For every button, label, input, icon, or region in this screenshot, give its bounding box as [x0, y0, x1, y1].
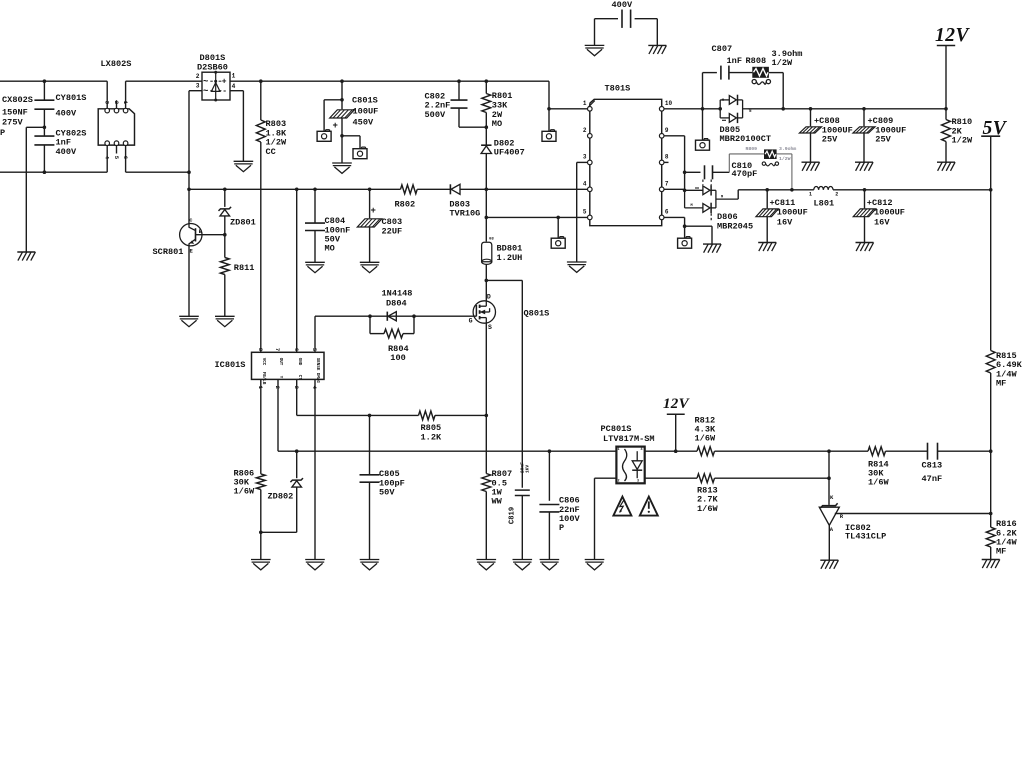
label L801 — [814, 198, 835, 208]
zener ZD801 — [219, 188, 232, 237]
svg-text:R809: R809 — [746, 146, 758, 152]
svg-text:MF: MF — [996, 547, 1006, 557]
resistor R814 — [868, 447, 886, 456]
wire R814 row — [829, 450, 868, 452]
transistor Q801S MOSFET — [469, 293, 496, 331]
svg-text:1/6W: 1/6W — [697, 504, 718, 514]
transistor SCR801 — [180, 189, 225, 254]
wire icon stub pin1 — [548, 109, 550, 131]
wire D803 to node — [460, 188, 590, 192]
svg-text:1/6W: 1/6W — [234, 487, 255, 497]
wire IC pin2 feedback — [278, 379, 616, 453]
capacitor 400V node — [595, 10, 658, 28]
label R810 — [952, 117, 973, 145]
svg-text:FB/LB: FB/LB — [261, 372, 266, 385]
wire primary clamp row — [187, 172, 400, 191]
resistor R801 — [482, 79, 491, 144]
svg-text:7: 7 — [274, 348, 281, 351]
svg-text:1000UF: 1000UF — [874, 208, 905, 218]
svg-text:MBR20100CT: MBR20100CT — [720, 134, 772, 144]
svg-text:P: P — [559, 523, 564, 533]
svg-text:25V: 25V — [875, 135, 891, 145]
icon tab C801S left — [317, 130, 331, 142]
svg-text:R811: R811 — [234, 263, 255, 273]
inductor L801 — [809, 187, 838, 198]
wire C801S tab2 — [342, 136, 360, 149]
svg-text:7: 7 — [665, 180, 669, 187]
wire R813 out — [715, 476, 831, 480]
wire IC pin3 row — [297, 379, 419, 417]
capacitor CY802S — [34, 126, 54, 175]
ground chassis C804 — [305, 262, 325, 272]
zener ZD802 — [261, 451, 303, 532]
wire drain to C819 branch — [486, 280, 522, 487]
label R806 — [234, 468, 255, 496]
svg-text:1N4148: 1N4148 — [382, 289, 413, 299]
wire R812 out — [715, 449, 831, 453]
T801S pins right — [659, 107, 664, 220]
svg-text:SCR801: SCR801 — [153, 247, 184, 257]
resistor R803 — [256, 79, 265, 352]
svg-text:D2SB60: D2SB60 — [197, 63, 228, 73]
svg-text:M: M — [721, 195, 723, 199]
svg-text:MO: MO — [325, 244, 335, 254]
wire R809 to 5V rail — [777, 154, 794, 192]
svg-text:c: c — [189, 216, 192, 223]
ground chassis C819 — [513, 560, 533, 570]
capacitor C803 — [357, 188, 382, 263]
wire 5V sense drop — [990, 190, 992, 351]
wire PC801 emitter to ground — [595, 478, 617, 559]
wire pin9 branch — [664, 136, 686, 192]
pin LX bot4 — [105, 141, 110, 172]
wire TL431 ref — [835, 512, 993, 516]
label R814 — [868, 459, 889, 487]
svg-text:100UF: 100UF — [353, 107, 379, 117]
label C809 — [868, 116, 907, 144]
svg-text:16V: 16V — [777, 217, 793, 227]
wire PC to R812 — [645, 450, 697, 452]
svg-text:08: 08 — [489, 237, 494, 241]
resistor R807 — [482, 415, 491, 559]
ground chassis pin3 — [567, 262, 587, 272]
svg-text:150NF: 150NF — [2, 107, 28, 117]
svg-text:+: + — [371, 206, 376, 216]
ground chassis R806 — [251, 560, 271, 570]
svg-text:1/6W: 1/6W — [695, 434, 716, 444]
wire 400V right leg — [656, 19, 658, 46]
svg-text:4: 4 — [232, 83, 236, 90]
ground chassis bridge — [234, 161, 254, 171]
svg-text:ZD801: ZD801 — [230, 217, 256, 227]
label CX802S value — [0, 95, 33, 138]
svg-text:LTV817M-SM: LTV817M-SM — [603, 434, 655, 444]
svg-text:CX802S: CX802S — [2, 95, 33, 105]
label C802 — [425, 91, 451, 119]
icon tab pin5 — [551, 237, 565, 249]
capacitor C809 — [853, 109, 875, 162]
ground earth R816 — [982, 560, 1000, 569]
svg-text:OUT: OUT — [278, 358, 282, 366]
svg-text:~: ~ — [203, 77, 208, 87]
pin LX bot5 stub — [114, 141, 119, 154]
icon tab pin1 — [542, 130, 556, 142]
wire 5V rail — [765, 188, 992, 192]
wire IC pin6 up — [295, 188, 299, 353]
resistor R804 loop — [370, 316, 414, 338]
wire CY midpoint branch — [26, 127, 44, 252]
svg-text:3.9ohm: 3.9ohm — [779, 146, 796, 152]
svg-text:+C812: +C812 — [867, 198, 893, 208]
capacitor C807 — [703, 66, 753, 109]
svg-text:M: M — [722, 99, 724, 103]
label R804 — [388, 344, 409, 363]
svg-text:-: - — [222, 87, 227, 96]
ground earth D806 branch — [703, 244, 721, 253]
label R813 — [697, 486, 718, 514]
wire pin6 branch — [664, 217, 686, 238]
supply 12V flag — [935, 25, 971, 109]
wire pin3 to ground — [577, 162, 588, 262]
svg-text:10: 10 — [665, 100, 673, 107]
inductor LX802S body — [98, 109, 134, 145]
label D804 — [382, 289, 413, 309]
wire IC pin5 riser — [314, 316, 316, 352]
resistor R813 — [697, 474, 715, 483]
shunt regulator IC802 — [819, 451, 844, 560]
svg-text:4: 4 — [583, 180, 587, 187]
label R807 — [492, 469, 513, 507]
wire bottom AC line from left edge — [0, 171, 107, 173]
capacitor C805 — [360, 415, 380, 559]
bridge rectifier D801S body — [202, 72, 230, 100]
capacitor C806 — [539, 451, 559, 559]
ground chassis C806 — [540, 560, 560, 570]
diode D804 — [387, 312, 396, 321]
ground chassis PC801 — [585, 560, 605, 570]
icon tab C801S right — [353, 147, 367, 159]
label CY801S — [56, 93, 87, 118]
IC801S body — [252, 352, 325, 379]
svg-text:T801S: T801S — [605, 84, 631, 94]
svg-text:D801S: D801S — [200, 53, 226, 63]
wire gate row — [315, 314, 476, 318]
svg-text:2: 2 — [583, 127, 587, 134]
ground chassis SCR801 — [179, 316, 199, 326]
svg-text:1.2UH: 1.2UH — [497, 253, 523, 263]
wire SCR emitter to ground — [188, 246, 190, 316]
svg-text:+: + — [333, 121, 338, 131]
pin numbers LX802S — [103, 101, 129, 160]
wire rail step to pin1 — [547, 81, 587, 110]
svg-text:1: 1 — [583, 100, 587, 107]
svg-text:N: N — [749, 110, 751, 114]
svg-text:1000UF: 1000UF — [777, 208, 808, 218]
IC801S pin numbers top — [257, 348, 318, 352]
svg-text:1nF: 1nF — [727, 56, 742, 66]
dual diode D805 — [720, 95, 751, 123]
label C807 — [712, 44, 742, 66]
svg-text:D806: D806 — [717, 212, 738, 222]
wire 12V rail — [748, 107, 948, 111]
wire bead to drain — [485, 264, 489, 301]
warning triangle electric — [613, 497, 631, 516]
label ZD802 — [268, 492, 294, 502]
diode D803 — [450, 184, 460, 194]
svg-text:2: 2 — [113, 101, 120, 104]
wire source down — [485, 323, 487, 415]
wire pin10 to D805 — [664, 107, 722, 111]
wire 400V left leg — [594, 19, 596, 46]
wire top AC line from left edge — [0, 80, 107, 82]
label R809 — [746, 146, 797, 162]
svg-text:TVR10G: TVR10G — [449, 209, 480, 219]
ground chassis C805 — [360, 560, 380, 570]
svg-text:MO: MO — [492, 119, 502, 129]
PC801S internals — [618, 448, 643, 483]
svg-text:1KV: 1KV — [525, 465, 531, 474]
fusible resistor R808 — [752, 67, 770, 85]
wire bridge pin3 riser — [187, 91, 202, 174]
ground earth CX mid — [17, 252, 35, 261]
label SCR801 — [153, 247, 184, 257]
svg-text:2: 2 — [618, 479, 620, 483]
svg-text:470pF: 470pF — [732, 169, 758, 179]
label BD801 — [497, 243, 523, 263]
capacitor C802 — [451, 79, 487, 127]
resistor R810 — [942, 109, 951, 162]
pin numbers D801S — [196, 72, 236, 90]
label D806 — [717, 212, 753, 232]
resistor R806 — [256, 379, 265, 559]
label IC802 — [845, 523, 886, 542]
svg-text:2: 2 — [196, 73, 200, 80]
label Q801S — [524, 309, 550, 319]
label R801 — [492, 91, 513, 129]
svg-text:1/2W: 1/2W — [772, 58, 793, 68]
label R802 — [395, 200, 416, 210]
svg-text:Q801S: Q801S — [524, 309, 550, 319]
label R808 — [746, 49, 803, 68]
wire icon stub C807 — [702, 109, 704, 140]
svg-text:2: 2 — [835, 192, 838, 198]
ground chassis R807 — [477, 560, 497, 570]
label C801S — [352, 96, 378, 128]
svg-text:BD801: BD801 — [497, 243, 523, 253]
icon tab D806 — [678, 237, 692, 249]
svg-text:C813: C813 — [922, 460, 943, 470]
label PC801S — [601, 424, 655, 444]
capacitor C811 — [756, 190, 779, 243]
svg-text:MBR2045: MBR2045 — [717, 222, 753, 232]
pin LX top3 — [123, 81, 128, 113]
ferrite bead BD801 — [482, 237, 495, 264]
resistor R812 — [697, 447, 715, 456]
wire AC top LX to bridge — [126, 80, 202, 82]
svg-text:UF4007: UF4007 — [494, 148, 525, 158]
label T801S — [605, 84, 631, 94]
ground chassis R811 — [215, 316, 235, 326]
label D805 — [720, 125, 772, 144]
svg-text:S: S — [488, 324, 492, 331]
label R815 — [996, 351, 1023, 389]
svg-text:LX802S: LX802S — [101, 59, 132, 69]
label C805 — [379, 469, 405, 497]
svg-text:SENSE DMAG: SENSE DMAG — [315, 358, 319, 384]
svg-text:12V: 12V — [663, 396, 691, 412]
label 400V net — [612, 0, 633, 10]
svg-text:450V: 450V — [353, 118, 374, 128]
svg-text:3: 3 — [196, 83, 200, 90]
bridge D801S internals — [203, 71, 227, 102]
label C813 — [922, 460, 943, 484]
svg-text:MF: MF — [996, 379, 1006, 389]
label C803 — [382, 217, 403, 236]
svg-text:M: M — [691, 204, 693, 208]
svg-text:22UF: 22UF — [382, 226, 403, 236]
svg-text:50V: 50V — [379, 488, 395, 498]
ground earth R810 — [937, 162, 955, 171]
svg-text:275V: 275V — [2, 118, 23, 128]
svg-text:16V: 16V — [874, 217, 890, 227]
label R812 — [695, 415, 716, 443]
wire bridge pin4 to ground — [230, 91, 243, 162]
wire icon stub pin5 — [557, 217, 559, 238]
warning triangle excl — [640, 497, 658, 516]
label C810 — [732, 161, 758, 179]
ground earth C811 — [758, 243, 776, 252]
ground earth C812 — [856, 243, 874, 252]
svg-text:1/2W: 1/2W — [952, 136, 973, 146]
resistor R815 — [986, 351, 995, 454]
diode D802 — [481, 145, 491, 189]
svg-text:D804: D804 — [386, 299, 407, 309]
svg-text:3: 3 — [637, 479, 639, 483]
label R803 — [266, 119, 287, 157]
ground chassis C803 — [360, 262, 380, 272]
capacitor C819 — [515, 490, 530, 559]
svg-text:6: 6 — [122, 156, 129, 159]
wire rectified + rail — [230, 80, 549, 82]
supply 12V flag secondary — [663, 396, 691, 453]
svg-text:1: 1 — [232, 72, 236, 79]
label D803 — [449, 200, 480, 219]
capacitor C804 — [305, 188, 325, 263]
svg-text:400V: 400V — [56, 147, 77, 157]
capacitor C801S — [330, 79, 355, 163]
svg-text:1/2W: 1/2W — [779, 156, 791, 162]
ground chassis IC pin4 — [305, 560, 325, 570]
wire C810 to R809 — [729, 154, 764, 172]
label D802 — [494, 138, 525, 157]
label C812 — [867, 198, 905, 227]
IC801S pin numbers bottom — [257, 386, 318, 390]
pin LX top2 stub — [114, 100, 119, 113]
wire C801S tab1 — [324, 100, 342, 131]
dual diode D806 — [685, 180, 739, 221]
label LX802S — [101, 59, 132, 69]
wire PC pin3 row — [645, 477, 697, 479]
svg-text:PC801S: PC801S — [601, 424, 632, 434]
svg-text:P: P — [0, 128, 5, 138]
svg-text:D: D — [487, 293, 491, 300]
svg-text:+: + — [222, 78, 227, 87]
svg-text:GND: GND — [297, 358, 301, 366]
label C819 — [508, 507, 516, 524]
svg-text:R808: R808 — [746, 56, 767, 66]
wire R805 to source node — [435, 414, 488, 418]
IC801S pin names — [261, 358, 319, 385]
svg-text:400V: 400V — [56, 108, 77, 118]
label CY802S — [56, 129, 87, 157]
capacitor C810 — [685, 165, 730, 179]
wire R808 to rail — [769, 73, 785, 111]
svg-text:5: 5 — [583, 209, 587, 216]
resistor R805 — [419, 411, 436, 420]
resistor R816 — [986, 451, 995, 559]
svg-text:C801S: C801S — [352, 96, 378, 106]
capacitor C808 — [799, 109, 821, 162]
ground earth 400V — [648, 45, 666, 54]
svg-text:3: 3 — [583, 154, 587, 161]
T801S pin8 stub — [664, 161, 669, 163]
resistor R811 — [220, 235, 229, 317]
svg-text:ZD802: ZD802 — [268, 492, 294, 502]
optocoupler PC801S body — [616, 447, 644, 484]
wire pin5 link — [486, 216, 590, 220]
T801S pin numbers right — [665, 100, 673, 216]
pin LX bot6 — [123, 141, 128, 172]
svg-text:L801: L801 — [814, 198, 835, 208]
svg-text:1: 1 — [618, 448, 620, 452]
wire pin7 link — [664, 188, 685, 190]
svg-text:100: 100 — [390, 353, 405, 363]
wire clamp node to pin5 row — [485, 189, 489, 241]
svg-text:VCC: VCC — [261, 358, 265, 366]
svg-text:R802: R802 — [395, 200, 416, 210]
svg-text:C807: C807 — [712, 44, 733, 54]
svg-text:47nF: 47nF — [922, 474, 943, 484]
label R816 — [996, 519, 1017, 557]
ground earth C809 — [855, 162, 873, 171]
ground chassis 400V — [585, 45, 605, 55]
wire D806 output to 5V rail — [738, 190, 814, 199]
supply 5V flag — [981, 118, 1008, 190]
capacitor C812 — [853, 190, 876, 243]
svg-text:+C811: +C811 — [770, 198, 796, 208]
svg-text:8: 8 — [665, 154, 669, 161]
label IC801S — [215, 360, 246, 370]
resistor R802 — [401, 185, 418, 194]
label C804 — [325, 216, 351, 254]
svg-text:G: G — [469, 317, 473, 324]
label C811 — [770, 198, 808, 227]
ground earth C808 — [802, 162, 820, 171]
wire AC bottom LX to corner — [126, 171, 189, 173]
svg-text:IC801S: IC801S — [215, 360, 246, 370]
T801S pin numbers left — [583, 100, 587, 216]
pin LX top1 — [105, 81, 110, 113]
T801S pins left — [588, 107, 593, 220]
svg-text:6: 6 — [665, 209, 669, 216]
fusible resistor R809 — [762, 149, 778, 165]
svg-text:400V: 400V — [612, 0, 633, 10]
label C819 value — [520, 462, 531, 473]
svg-text:1: 1 — [809, 192, 812, 198]
svg-text:25V: 25V — [822, 135, 838, 145]
wire D806 snubber ground branch — [685, 226, 712, 244]
capacitor CY801S — [34, 79, 54, 136]
